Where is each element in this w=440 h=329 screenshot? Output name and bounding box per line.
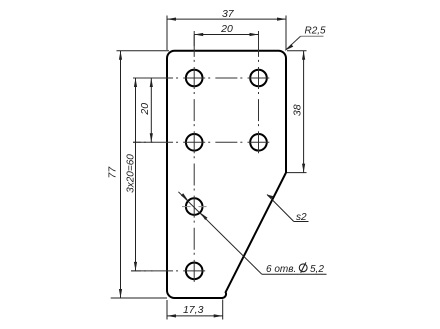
svg-text:6 отв.: 6 отв.	[266, 264, 296, 275]
dimension 77 line	[120, 51, 122, 298]
dimension 38 line	[303, 51, 305, 173]
centerline row 4	[131, 270, 153, 272]
centerline row 1	[133, 77, 153, 79]
dimension 37 line	[167, 18, 286, 20]
svg-text:77: 77	[106, 166, 118, 179]
centerline column 1	[193, 31, 195, 46]
hole row2 left	[186, 134, 203, 151]
centerline row 2	[133, 141, 153, 143]
leader s2	[267, 195, 294, 222]
svg-text:s2: s2	[296, 212, 307, 223]
svg-text:37: 37	[222, 8, 235, 20]
centerline row 3	[182, 206, 191, 208]
hole row4 left	[186, 263, 203, 280]
svg-text:3x20=60: 3x20=60	[126, 154, 137, 193]
hole row1 left	[186, 70, 203, 87]
hole row3 left	[186, 198, 203, 215]
hole row1 right	[250, 70, 267, 87]
svg-text:38: 38	[291, 104, 303, 116]
diameter symbol	[299, 264, 307, 272]
dimension 20 left line	[150, 78, 152, 142]
dimension 17,3 line	[167, 315, 223, 317]
dimension 3x20=60 line	[135, 78, 137, 271]
centerline column 2	[258, 31, 260, 46]
svg-text:17,3: 17,3	[183, 304, 204, 316]
svg-text:R2,5: R2,5	[305, 25, 327, 36]
hole row2 right	[250, 134, 267, 151]
svg-text:5,2: 5,2	[310, 264, 324, 275]
leader R2,5	[285, 36, 300, 50]
dimension 20 top line	[194, 34, 258, 36]
svg-text:20: 20	[220, 23, 233, 35]
svg-text:20: 20	[139, 103, 151, 116]
leader 6 holes	[178, 192, 262, 274]
plate outline	[167, 51, 286, 298]
